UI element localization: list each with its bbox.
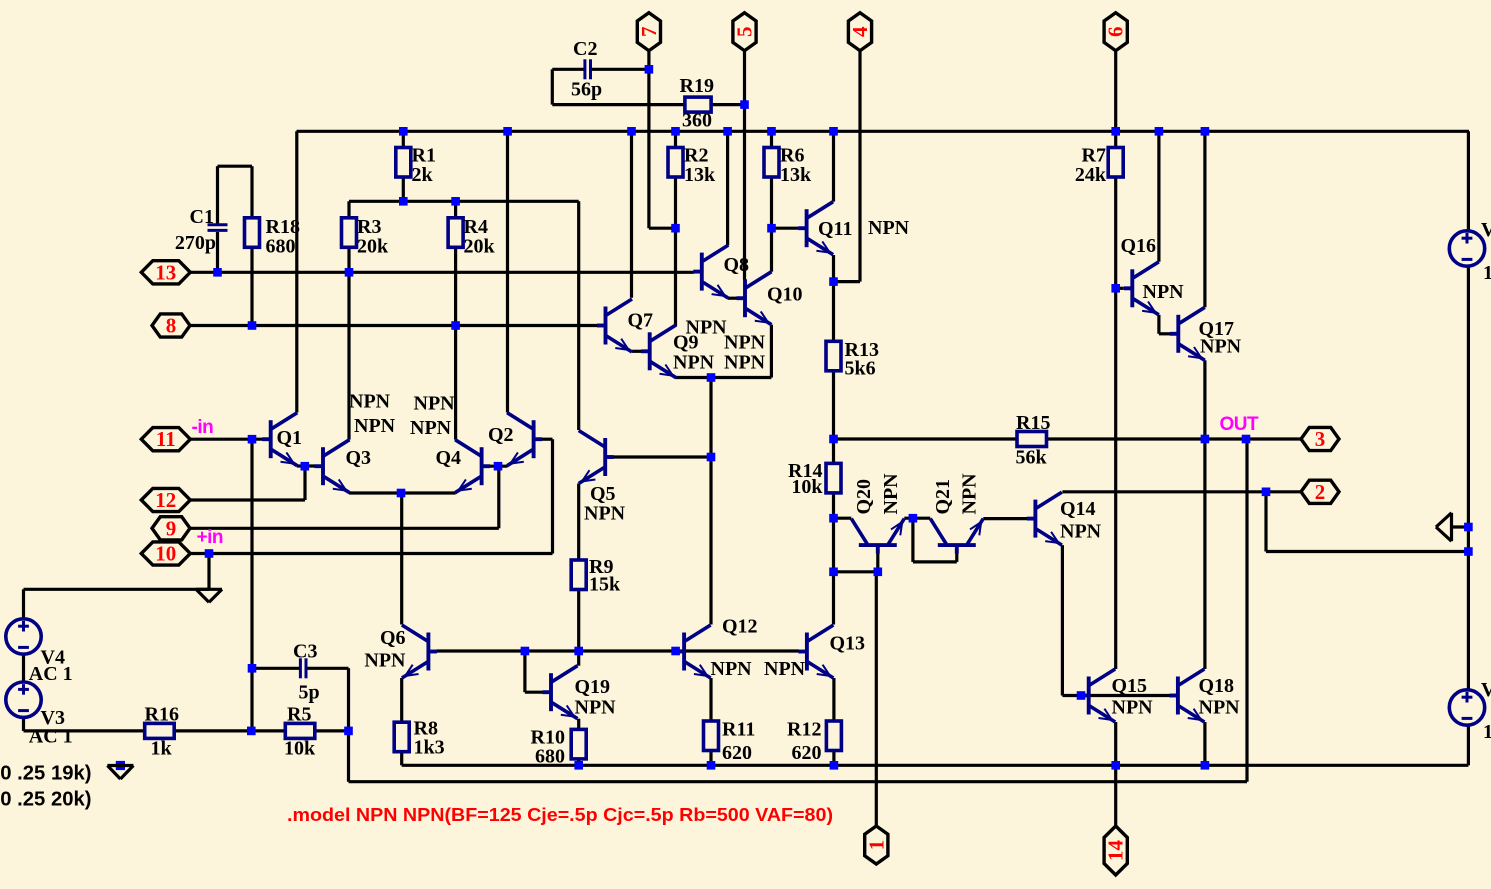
- svg-text:NPN: NPN: [1200, 336, 1242, 358]
- wire R7 top lead: [1114, 131, 1117, 147]
- wire R6 top lead: [770, 131, 773, 147]
- svg-text:13: 13: [155, 260, 176, 284]
- wire V4 top: [22, 589, 25, 619]
- svg-text:7: 7: [637, 26, 661, 37]
- junction rail Q2c: [503, 127, 512, 136]
- wire port2 bottom: [1266, 550, 1468, 553]
- svg-text:NPN: NPN: [364, 650, 406, 672]
- wire Q7 collector riser: [630, 131, 633, 297]
- wire Q7 emitter to Q9 base: [632, 350, 642, 353]
- junction diff emitters: [397, 489, 406, 498]
- wire Q8 emitter to Q10 base: [728, 297, 737, 300]
- svg-text:20k: 20k: [464, 236, 496, 258]
- transistor Q10: [737, 272, 772, 325]
- svg-text:Q10: Q10: [767, 284, 803, 306]
- svg-text:R12: R12: [787, 719, 821, 741]
- resistor R9: [571, 560, 586, 590]
- voltage source V3: [6, 682, 41, 717]
- wire port12 riser: [303, 466, 306, 500]
- svg-text:270p: 270p: [175, 232, 216, 254]
- wire C2 loop to R19: [552, 103, 685, 106]
- junction OUT-R13: [829, 435, 838, 444]
- svg-text:1: 1: [864, 840, 888, 851]
- wire Q16 collector riser: [1157, 131, 1160, 261]
- svg-text:Q2: Q2: [488, 424, 514, 446]
- transistor Q3: [315, 440, 350, 493]
- ground main: [196, 589, 222, 602]
- resistor R15: [1017, 432, 1047, 447]
- junction gnd flag: [1464, 523, 1473, 532]
- wire Q20e-Q21c: [904, 517, 930, 520]
- resistor R11: [704, 721, 719, 751]
- resistor R18: [245, 218, 260, 248]
- wire Q6 emitter lead: [400, 678, 403, 722]
- wire Q19 collector lead: [577, 651, 580, 666]
- resistor R5: [285, 723, 315, 738]
- junction rail Q16c: [1155, 127, 1164, 136]
- wire R1 top lead: [402, 131, 405, 147]
- wire C1-R18 top: [218, 165, 253, 168]
- wire Q5 base net: [613, 455, 711, 458]
- svg-text:V: V: [1481, 679, 1491, 701]
- port 8: [152, 314, 190, 337]
- svg-text:Q14: Q14: [1060, 498, 1096, 520]
- wire R3 top lead: [347, 201, 350, 218]
- junction C3 left: [248, 664, 257, 673]
- svg-text:NPN: NPN: [584, 503, 626, 525]
- wire Q16 base stub: [1116, 287, 1124, 290]
- ground stray flag: [116, 761, 125, 770]
- junction R14-Q20: [829, 514, 838, 523]
- svg-text:360: 360: [682, 110, 712, 132]
- wire Q14 collector net: [1062, 490, 1301, 493]
- transistor Q2: [507, 413, 542, 466]
- wire Q8 collector riser: [726, 131, 729, 245]
- junction Q16 base: [1111, 284, 1120, 293]
- junction rail R2: [671, 127, 680, 136]
- port 12: [141, 488, 190, 511]
- transistor Q16: [1124, 262, 1159, 315]
- wire R13 top lead: [832, 282, 835, 342]
- svg-text:NPN: NPN: [410, 417, 452, 439]
- resistor R13: [826, 341, 841, 371]
- wire Q16 spine: [1114, 288, 1117, 669]
- transistor Q12: [676, 625, 711, 678]
- wire R13 bottom lead: [832, 371, 835, 439]
- wire Q11 emitter lead: [832, 255, 835, 282]
- svg-text:10: 10: [155, 542, 176, 566]
- svg-text:2: 2: [1315, 480, 1326, 504]
- wire Q10 collector riser: [770, 228, 773, 272]
- resistor R16: [145, 723, 175, 738]
- wire R14 bottom lead: [832, 493, 835, 518]
- wire port7 to R2: [649, 227, 676, 230]
- wire Q21 loop riser: [911, 518, 914, 562]
- junction port11: [248, 435, 257, 444]
- wire port13 net: [191, 271, 694, 274]
- junction rail R7: [1111, 127, 1120, 136]
- junction rail Q11c: [829, 127, 838, 136]
- svg-text:Q4: Q4: [436, 447, 462, 469]
- wire port9 riser: [497, 466, 500, 528]
- wire R4 top lead: [454, 201, 457, 218]
- capacitor C3: [300, 658, 306, 678]
- wire R6 to Q11 base: [772, 227, 799, 230]
- junction R5-C3: [344, 727, 353, 736]
- junction rail Q15e: [1111, 761, 1120, 770]
- voltage source V4: [6, 619, 41, 654]
- port 9: [152, 517, 190, 540]
- junction rail Q17c: [1201, 127, 1210, 136]
- wire Q2 base stub: [542, 438, 553, 441]
- svg-text:14: 14: [1104, 840, 1128, 862]
- wire port2 drop: [1264, 492, 1267, 552]
- svg-text:+in: +in: [197, 527, 223, 548]
- transistor Q4: [455, 440, 490, 493]
- wire feedback riser: [1245, 439, 1248, 782]
- wire R9 bottom lead: [577, 590, 580, 652]
- wire right edge down to V1: [1467, 131, 1470, 231]
- svg-text:20k: 20k: [357, 236, 389, 258]
- junction rail R1: [399, 127, 408, 136]
- svg-text:620: 620: [792, 742, 822, 764]
- voltage source V2: [1449, 690, 1484, 725]
- wire port8 net: [190, 324, 598, 327]
- svg-text:2k: 2k: [412, 164, 434, 186]
- svg-text:AC 1: AC 1: [29, 663, 73, 685]
- resistor R1: [396, 148, 411, 178]
- svg-text:15k: 15k: [589, 574, 621, 596]
- resistor R14: [826, 463, 841, 493]
- svg-text:(0 .25 19k): (0 .25 19k): [0, 763, 91, 785]
- junction Q5 base: [707, 453, 716, 462]
- wire driver base row: [1062, 694, 1170, 697]
- svg-text:NPN: NPN: [724, 352, 766, 374]
- wire R1 bottom lead: [402, 177, 405, 201]
- resistor R10: [571, 729, 586, 759]
- svg-text:NPN: NPN: [575, 697, 617, 719]
- junction Q9Q10 emitters: [707, 373, 716, 382]
- junction R18-line8: [248, 321, 257, 330]
- wire OUT right: [1047, 437, 1301, 440]
- wire R4 bottom lead: [454, 247, 457, 325]
- wire port5 drop: [743, 50, 746, 280]
- svg-text:-in: -in: [192, 417, 214, 438]
- svg-text:Q3: Q3: [346, 447, 372, 469]
- wire V4-V3: [22, 654, 25, 682]
- svg-text:13k: 13k: [780, 164, 812, 186]
- svg-text:NPN: NPN: [349, 391, 391, 413]
- wire Q21 loop bottom: [913, 560, 957, 563]
- wire Q16e to Q17b: [1159, 332, 1170, 335]
- svg-text:5p: 5p: [299, 682, 320, 704]
- wire Q9Q10 emitter join: [676, 376, 772, 379]
- svg-text:R15: R15: [1016, 412, 1050, 434]
- svg-text:12: 12: [155, 488, 176, 512]
- svg-text:680: 680: [535, 746, 565, 768]
- capacitor C2: [585, 59, 591, 79]
- wire V4 to gnd: [24, 588, 210, 591]
- svg-text:C3: C3: [293, 641, 317, 663]
- junction port13-C1: [213, 268, 222, 277]
- transistor Q21: [930, 519, 983, 554]
- wire Q19 base drop: [523, 651, 526, 692]
- wire R19 right lead: [711, 103, 744, 106]
- wire V1 to V2: [1467, 266, 1470, 690]
- svg-text:NPN: NPN: [1060, 521, 1102, 543]
- wire R18 top lead: [250, 166, 253, 218]
- svg-text:3: 3: [1315, 427, 1326, 451]
- svg-text:13k: 13k: [684, 164, 716, 186]
- wire Q19 emitter lead: [577, 719, 580, 730]
- svg-text:10k: 10k: [284, 738, 316, 760]
- junction balance: [829, 568, 838, 577]
- svg-text:Q13: Q13: [830, 633, 866, 655]
- wire Q10 emitter drop: [770, 325, 773, 378]
- ground stray tri: [107, 766, 133, 780]
- port 10: [141, 542, 190, 565]
- junction bias R9: [574, 647, 583, 656]
- svg-text:NPN: NPN: [880, 473, 902, 515]
- transistor Q15: [1080, 669, 1115, 722]
- wire Q21 base drop: [955, 553, 958, 562]
- wire R2 bottom lead: [674, 177, 677, 228]
- svg-text:1: 1: [1483, 262, 1491, 284]
- transistor Q14: [1027, 492, 1062, 545]
- junction supply mid: [1464, 547, 1473, 556]
- wire R5 to riser: [316, 729, 349, 732]
- ground right flag: [1436, 513, 1452, 541]
- resistor R6: [764, 148, 779, 178]
- wire R16 to R5: [175, 729, 286, 732]
- svg-text:R5: R5: [287, 704, 311, 726]
- port 6: [1104, 13, 1127, 51]
- junction OUT-feedback: [1242, 435, 1251, 444]
- wire port14 lead: [1114, 765, 1117, 826]
- junction rail Q7c: [627, 127, 636, 136]
- svg-text:C2: C2: [573, 38, 597, 60]
- wire R6 bottom lead: [770, 177, 773, 228]
- wire C1 bottom lead: [216, 232, 219, 272]
- junction OUT-Q17e: [1201, 435, 1210, 444]
- wire Q15 emitter lead: [1114, 722, 1117, 765]
- junction rail Q18e: [1201, 761, 1210, 770]
- junction rail R6: [767, 127, 776, 136]
- junction gnd tap: [205, 549, 214, 558]
- junction Q20 base: [874, 568, 883, 577]
- wire R14 to Q13: [832, 518, 835, 572]
- wire port1 drop: [875, 572, 878, 826]
- wire V3 bottom: [22, 717, 25, 731]
- port 2: [1301, 480, 1339, 503]
- wire Q2 emitter to Q4 base: [490, 465, 508, 468]
- svg-text:1k: 1k: [151, 738, 173, 760]
- wire R1 rail: [349, 200, 579, 203]
- transistor Q6: [402, 625, 437, 678]
- resistor R3: [342, 218, 357, 248]
- port 7: [637, 13, 660, 51]
- junction rail R11: [707, 761, 716, 770]
- svg-text:R11: R11: [722, 719, 755, 741]
- wire Q17 collector riser: [1203, 131, 1206, 307]
- svg-text:NPN: NPN: [959, 473, 981, 515]
- wire Q17 emitter drop: [1203, 360, 1206, 669]
- svg-text:6: 6: [1104, 26, 1128, 37]
- svg-text:Q19: Q19: [575, 676, 611, 698]
- junction C2-port7: [645, 65, 654, 74]
- wire feedback bottom: [349, 780, 1248, 783]
- junction Q1e-Q3b: [301, 462, 310, 471]
- svg-text:C1: C1: [190, 206, 214, 228]
- resistor R19: [685, 97, 711, 112]
- svg-text:NPN: NPN: [868, 217, 910, 239]
- svg-text:Q20: Q20: [853, 479, 875, 515]
- transistor Q18: [1169, 669, 1204, 722]
- wire Q6 collector riser: [400, 493, 403, 625]
- wire C3 right: [306, 667, 349, 670]
- svg-text:NPN: NPN: [1143, 281, 1185, 303]
- svg-text:NPN: NPN: [354, 415, 396, 437]
- wire Q13 emitter lead: [832, 678, 835, 721]
- junction Q2e-Q4b: [494, 462, 503, 471]
- wire C2 loop down: [551, 69, 554, 104]
- wire R10 bottom lead: [577, 759, 580, 765]
- wire R14 top lead: [832, 439, 835, 463]
- wire Q9 collector riser: [674, 228, 677, 326]
- wire port10 riser to Q2 base: [551, 439, 554, 553]
- wire Q3 collector riser: [347, 272, 350, 439]
- svg-text:.model NPN NPN(BF=125 Cje=.5p: .model NPN NPN(BF=125 Cje=.5p Cjc=.5p Rb…: [287, 804, 833, 825]
- wire Q20 base drop: [876, 553, 879, 572]
- wire port6 drop: [1114, 50, 1117, 131]
- wire R8 bottom lead: [400, 752, 403, 766]
- wire R7 bottom lead: [1114, 177, 1117, 288]
- svg-text:R16: R16: [145, 704, 179, 726]
- svg-text:Q11: Q11: [818, 218, 852, 240]
- svg-text:(0 .25 20k): (0 .25 20k): [0, 789, 91, 811]
- svg-text:4: 4: [848, 26, 872, 37]
- wire port4 drop: [858, 50, 861, 281]
- junction bias Q19: [521, 647, 530, 656]
- svg-text:NPN: NPN: [724, 332, 766, 354]
- junction Q20e-Q21: [909, 514, 918, 523]
- wire mirror spine: [709, 378, 712, 625]
- transistor Q20: [851, 519, 904, 554]
- wire port10 net: [191, 552, 553, 555]
- svg-text:Q18: Q18: [1199, 675, 1235, 697]
- svg-text:56k: 56k: [1016, 447, 1048, 469]
- svg-text:5: 5: [733, 26, 757, 37]
- wire Q12 emitter lead: [709, 678, 712, 721]
- wire port4 to Q11: [834, 280, 861, 283]
- junction Q11e-port4: [829, 277, 838, 286]
- svg-text:Q15: Q15: [1112, 675, 1148, 697]
- junction rail R10: [574, 761, 583, 770]
- port 5: [733, 13, 756, 51]
- junction R16-R5: [247, 727, 256, 736]
- svg-text:Q16: Q16: [1121, 235, 1157, 257]
- transistor Q19: [543, 666, 578, 719]
- junction R3-line13: [345, 268, 354, 277]
- wire Q20 collector stub: [834, 517, 852, 520]
- port 13: [141, 261, 190, 284]
- svg-text:NPN: NPN: [711, 658, 753, 680]
- port 11: [141, 428, 190, 451]
- svg-text:Q12: Q12: [722, 616, 758, 638]
- svg-text:8: 8: [166, 314, 177, 338]
- transistor Q17: [1170, 307, 1205, 360]
- port 4: [848, 13, 871, 51]
- junction rail Q8c: [723, 127, 732, 136]
- wire R3 bottom lead: [347, 247, 350, 272]
- junction R4-line8: [451, 321, 460, 330]
- transistor Q11: [798, 202, 833, 255]
- junction Q15 base: [1077, 691, 1086, 700]
- port 3: [1301, 427, 1339, 450]
- wire gnd flag stub: [1452, 525, 1469, 528]
- svg-text:Q8: Q8: [724, 254, 750, 276]
- transistor Q9: [641, 325, 676, 378]
- transistor Q8: [693, 245, 728, 298]
- wire R12 bottom lead: [832, 751, 835, 766]
- svg-text:NPN: NPN: [673, 352, 715, 374]
- resistor R8: [394, 722, 409, 752]
- wire port11 to Q1 base: [191, 438, 263, 441]
- svg-text:11: 11: [156, 427, 176, 451]
- junction port2: [1262, 488, 1271, 497]
- junction R19-port5: [740, 100, 749, 109]
- port 14: [1104, 826, 1127, 875]
- svg-text:Q7: Q7: [628, 310, 654, 332]
- port 1: [865, 826, 888, 864]
- wire bottom rail: [402, 764, 1469, 767]
- wire Q5 emitter lead: [577, 484, 580, 561]
- wire Q11 collector riser: [832, 131, 835, 201]
- svg-text:R19: R19: [680, 75, 714, 97]
- wire V2 to bottom corner: [1467, 725, 1470, 765]
- svg-text:Q21: Q21: [932, 479, 954, 515]
- wire C1 top lead: [216, 166, 219, 224]
- wire diffpair emitters: [349, 491, 456, 494]
- transistor Q7: [597, 299, 632, 352]
- wire C2 right lead: [591, 68, 649, 71]
- junction R4 top: [451, 197, 460, 206]
- resistor R12: [826, 721, 841, 751]
- wire C3 riser: [347, 668, 350, 781]
- svg-text:1k3: 1k3: [414, 737, 445, 759]
- wire V3 to R16: [24, 729, 145, 732]
- svg-text:NPN: NPN: [1199, 697, 1241, 719]
- svg-text:620: 620: [722, 742, 752, 764]
- wire top rail: [297, 130, 1470, 133]
- transistor Q5: [579, 431, 614, 484]
- svg-text:NPN: NPN: [686, 317, 728, 339]
- wire Q2 collector riser: [506, 131, 509, 412]
- svg-text:24k: 24k: [1075, 164, 1107, 186]
- svg-text:NPN: NPN: [764, 658, 806, 680]
- wire C2 left lead: [552, 68, 585, 71]
- wire R18 bottom lead: [250, 247, 253, 325]
- svg-text:NPN: NPN: [1112, 697, 1154, 719]
- wire Q1 collector riser: [295, 131, 298, 412]
- wire gnd drop: [207, 554, 210, 590]
- svg-text:10k: 10k: [791, 476, 823, 498]
- svg-text:V: V: [1481, 219, 1491, 241]
- svg-text:Q6: Q6: [380, 627, 406, 649]
- svg-text:9: 9: [166, 516, 177, 540]
- svg-text:5k6: 5k6: [845, 358, 876, 380]
- wire port12 net: [191, 498, 305, 501]
